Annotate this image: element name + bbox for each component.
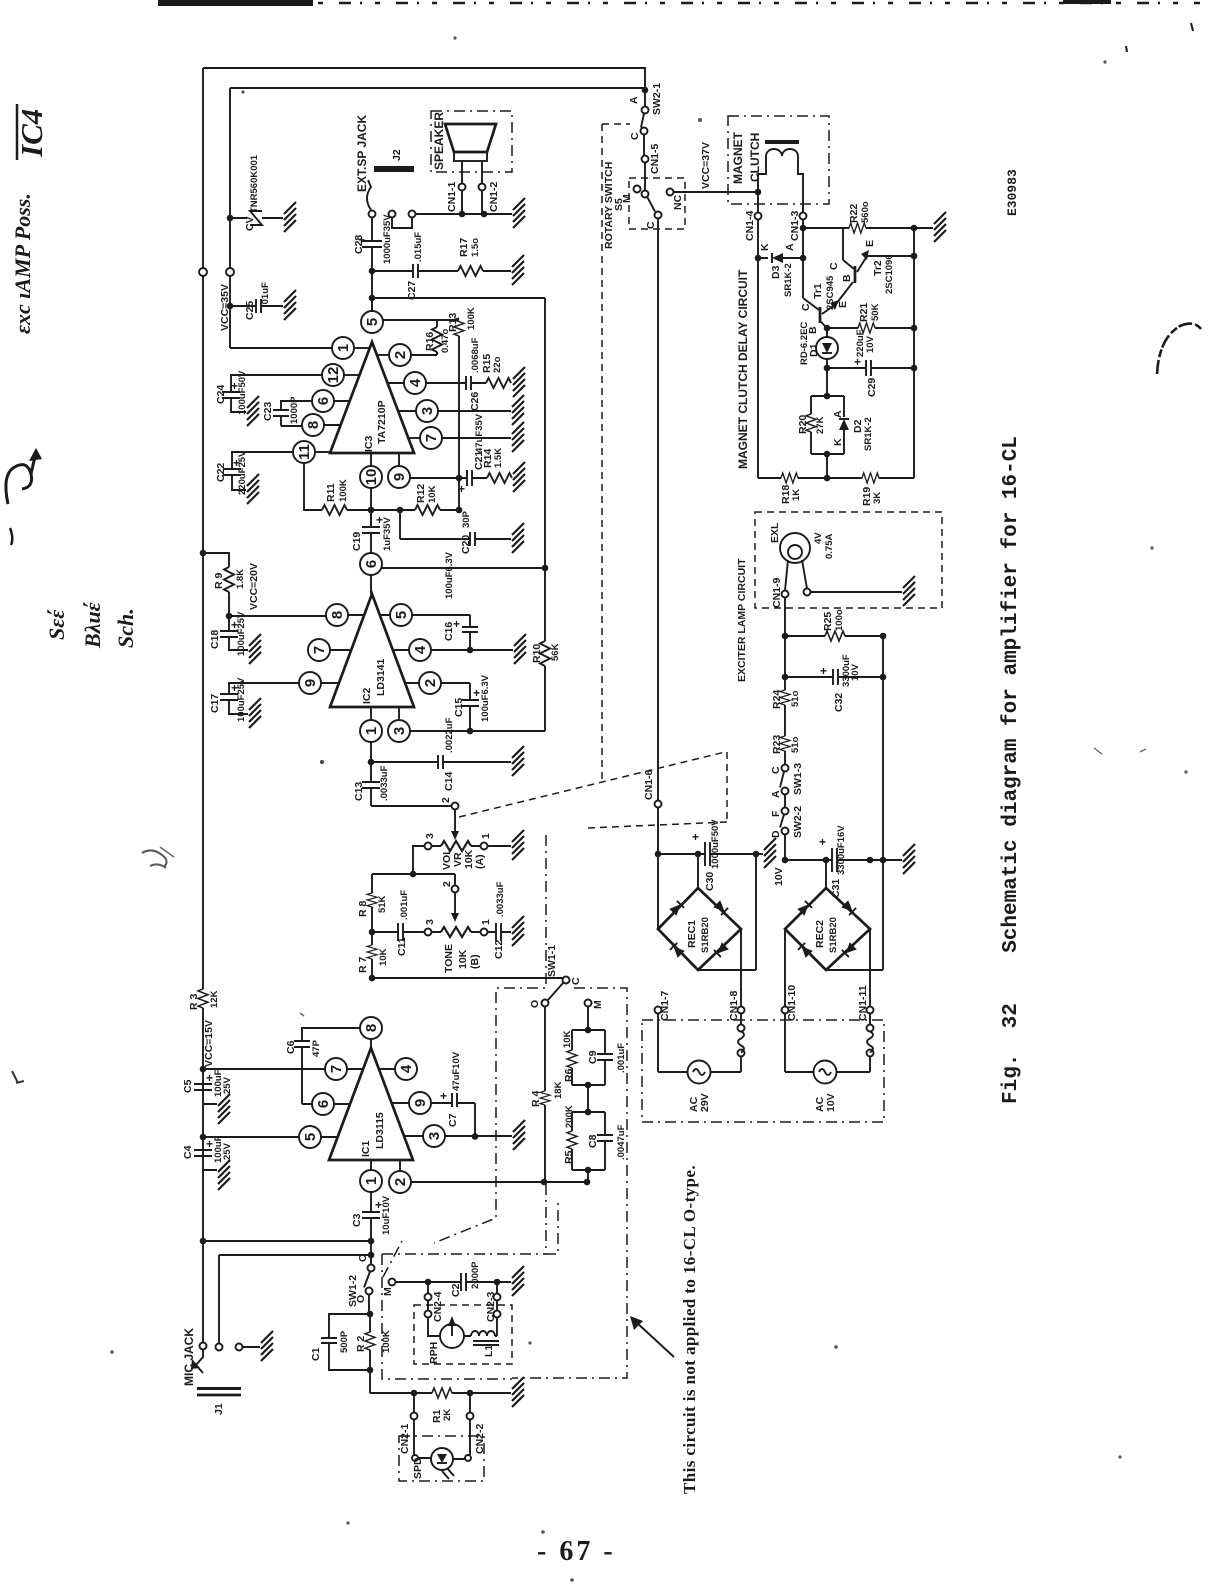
svg-text:R6: R6 [563, 1068, 575, 1082]
pin 11 [293, 441, 315, 463]
pin 1 [332, 337, 354, 359]
svg-text:EXCITER LAMP CIRCUIT: EXCITER LAMP CIRCUIT [736, 558, 748, 682]
connector CN2-1 [413, 1393, 415, 1441]
svg-text:C25: C25 [244, 301, 256, 320]
svg-text:REC2: REC2 [814, 920, 826, 948]
svg-text:R 2: R 2 [355, 1336, 367, 1353]
connector CN1-7 [655, 1007, 662, 1014]
potentiometer TONE 10K (B) [452, 886, 459, 893]
capacitor C17 100uF25V [220, 683, 300, 714]
svg-text:IC1: IC1 [360, 1141, 372, 1158]
capacitor C26 .0068uF [426, 376, 487, 390]
jack J2 [374, 166, 414, 172]
svg-text:8: 8 [305, 421, 322, 429]
svg-text:R12: R12 [415, 484, 427, 503]
svg-text:.01uF: .01uF [260, 282, 271, 307]
magnet clutch coil [765, 140, 799, 144]
connector CN2-4 [427, 1282, 429, 1311]
svg-text:E30983: E30983 [1005, 169, 1020, 216]
svg-text:R21: R21 [858, 303, 870, 322]
wire pin10 to node [370, 488, 372, 528]
svg-text:51K: 51K [377, 895, 388, 913]
svg-text:LD3115: LD3115 [374, 1112, 386, 1149]
svg-text:100uF6.3V: 100uF6.3V [480, 674, 491, 722]
svg-text:A: A [628, 96, 640, 104]
svg-text:C8: C8 [587, 1134, 599, 1148]
svg-text:R10: R10 [531, 644, 543, 663]
pin 2 [389, 1171, 411, 1193]
svg-text:100uF50V: 100uF50V [237, 370, 248, 415]
svg-text:C: C [828, 262, 840, 270]
svg-text:TONE: TONE [443, 944, 455, 973]
svg-text:CN1-7: CN1-7 [659, 990, 671, 1021]
svg-text:C1: C1 [310, 1347, 322, 1361]
svg-text:LD3141: LD3141 [375, 658, 387, 696]
svg-text:2: 2 [422, 679, 439, 687]
svg-text:7: 7 [423, 434, 440, 442]
svg-text:C4: C4 [182, 1145, 194, 1159]
capacitor C11 .001uF [372, 923, 425, 941]
wire pin3 to ground [438, 410, 512, 412]
svg-text:D3: D3 [770, 265, 782, 279]
speaker [445, 124, 496, 152]
svg-text:R5: R5 [563, 1150, 575, 1164]
resistor R12 10K [371, 509, 415, 511]
svg-text:10V: 10V [865, 335, 876, 353]
svg-text:CN1-5: CN1-5 [649, 143, 661, 174]
op-amp IC3 TA7210P [330, 342, 414, 453]
svg-text:CN1-2: CN1-2 [488, 181, 500, 212]
resistor R6 10K / capacitor C9 .001uF [587, 1007, 589, 1031]
connector CN1-10 [784, 929, 786, 1007]
svg-text:1.8K: 1.8K [235, 569, 246, 589]
resistor R20 27K / diode D2 SR1K-2 [826, 368, 828, 396]
svg-text:VCC=37V: VCC=37V [700, 142, 712, 189]
svg-text:R 9: R 9 [213, 573, 225, 590]
pin 10 [360, 466, 382, 488]
svg-text:4: 4 [407, 378, 424, 387]
svg-text:10K: 10K [378, 948, 389, 966]
rail right of C32 [882, 636, 884, 970]
svg-text:TNR560K001: TNR560K001 [249, 154, 260, 213]
dashed boundary inner [434, 835, 546, 1243]
svg-text:+: + [820, 664, 827, 678]
note arrow [636, 1322, 674, 1357]
svg-text:47uF10V: 47uF10V [451, 1051, 462, 1091]
svg-text:6: 6 [363, 560, 380, 568]
wire NC to clutch [674, 191, 759, 193]
svg-text:D: D [770, 830, 782, 838]
node A rail junction circles [199, 268, 207, 276]
varistor CV TNR560K001 [227, 215, 234, 222]
dashed boundary outer [512, 988, 627, 1378]
svg-text:EXL: EXL [769, 522, 781, 543]
svg-text:C28: C28 [353, 235, 365, 254]
svg-text:500P: 500P [339, 1330, 350, 1353]
svg-text:C19: C19 [351, 532, 363, 551]
rectifier REC1 S1RB20 [695, 851, 702, 858]
wire: left outer VCC rail [202, 68, 204, 1346]
pin 4 [409, 639, 431, 661]
svg-text:C6: C6 [285, 1040, 297, 1054]
connector CN1-1 [459, 184, 466, 191]
capacitor C24 100uF50V [222, 375, 323, 412]
wire jack loop [392, 218, 412, 229]
svg-text:J2: J2 [391, 149, 403, 161]
svg-text:CN1-1: CN1-1 [446, 181, 458, 212]
capacitor C30 1000uF50V [655, 851, 662, 858]
capacitor C20 30P [400, 510, 511, 546]
pin 3 [423, 1125, 445, 1147]
svg-text:+: + [206, 1071, 213, 1085]
svg-text:CV: CV [244, 216, 256, 231]
resistor R2 100K [369, 1314, 371, 1393]
svg-text:R11: R11 [325, 483, 337, 502]
wire VCC branch to R9 [200, 550, 207, 557]
svg-text:NC: NC [672, 194, 684, 210]
connector CN1-5 [643, 135, 645, 156]
svg-text:1.5o: 1.5o [470, 238, 481, 257]
svg-text:+: + [473, 686, 480, 700]
pin 2 [389, 344, 411, 366]
svg-text:C9: C9 [587, 1050, 599, 1064]
svg-text:VCC=15V: VCC=15V [203, 1020, 215, 1067]
svg-text:2K: 2K [442, 1409, 453, 1421]
svg-text:IC3: IC3 [363, 436, 375, 453]
svg-text:R 8: R 8 [357, 901, 369, 918]
pin 5 [390, 604, 412, 626]
svg-text:SW2-1: SW2-1 [651, 83, 663, 115]
svg-text:C18: C18 [209, 630, 221, 649]
wire VCC feed to IC2 rail [372, 297, 545, 299]
wire jack to ground [416, 213, 513, 215]
svg-text:F: F [770, 810, 782, 817]
svg-text:0.75A: 0.75A [824, 534, 835, 559]
op-amp IC1 LD3115 [329, 1048, 413, 1160]
svg-text:J1: J1 [213, 1403, 225, 1415]
svg-text:25V: 25V [222, 1142, 233, 1160]
svg-text:2: 2 [392, 351, 409, 359]
svg-text:7: 7 [328, 1065, 345, 1073]
handwritten arrow [6, 465, 32, 504]
svg-text:VCC=20V: VCC=20V [248, 563, 260, 610]
capacitor C14 .0022uF [371, 755, 511, 769]
switch SW2-1 [642, 87, 649, 94]
capacitor C23 1000P [273, 401, 313, 426]
svg-text:C: C [357, 1254, 369, 1262]
svg-text:47uF35V: 47uF35V [474, 413, 485, 453]
svg-text:56K: 56K [550, 643, 561, 661]
diode D3 SR1K-2 [755, 255, 762, 262]
dashed pointer to CN1-6 [459, 752, 727, 828]
op-amp IC2 LD3141 [330, 594, 414, 707]
svg-text:2SC945: 2SC945 [825, 275, 836, 310]
magnet clutch box [728, 116, 829, 204]
pin 5 [371, 298, 373, 312]
svg-text:51o: 51o [790, 736, 801, 753]
svg-text:+: + [458, 482, 465, 496]
svg-text:S1RB20: S1RB20 [828, 917, 839, 953]
svg-text:C12: C12 [493, 940, 505, 959]
svg-text:22o: 22o [492, 356, 503, 373]
svg-text:εxc ıAMP Poss.: εxc ıAMP Poss. [10, 193, 35, 334]
svg-text:- 67 -: - 67 - [537, 1536, 616, 1567]
svg-text:220uF25V: 220uF25V [237, 450, 248, 495]
svg-text:C26: C26 [469, 392, 481, 411]
svg-text:3: 3 [426, 1132, 443, 1140]
svg-text:8: 8 [329, 611, 346, 619]
svg-text:CN2-4: CN2-4 [432, 1291, 444, 1322]
svg-text:C13: C13 [353, 782, 365, 801]
AC source 29V [688, 1061, 711, 1084]
capacitor C21 47uF35V [410, 470, 488, 486]
wire: inner top rail [230, 88, 645, 348]
svg-text:1000uF35V: 1000uF35V [382, 214, 393, 264]
svg-text:MAGNET: MAGNET [731, 131, 745, 184]
coil winding [738, 1025, 745, 1032]
wire pin7 to ground [442, 437, 512, 439]
svg-text:C: C [629, 132, 641, 140]
svg-text:1: 1 [363, 1177, 380, 1185]
capacitor C4 100uF25V [194, 1150, 217, 1170]
svg-text:1.5K: 1.5K [493, 448, 504, 468]
resistor R17 1.5o [458, 266, 483, 276]
pin 9 [299, 672, 321, 694]
svg-text:R 3: R 3 [188, 994, 200, 1011]
pin 7 [308, 639, 330, 661]
svg-text:CN2-1: CN2-1 [399, 1423, 411, 1454]
svg-text:CN1-9: CN1-9 [771, 577, 783, 608]
svg-text:Tr1: Tr1 [812, 283, 824, 299]
svg-text:C20: C20 [460, 535, 472, 554]
svg-text:100K: 100K [381, 1330, 392, 1353]
svg-text:R23: R23 [771, 735, 783, 754]
resistor R14 1.5K [487, 473, 512, 483]
svg-text:Sεέ: Sεέ [44, 609, 69, 640]
capacitor C27 .015uF [372, 264, 458, 278]
svg-text:10V: 10V [825, 1093, 837, 1112]
svg-text:5: 5 [364, 318, 381, 326]
connector CN1-2 [479, 184, 486, 191]
pin 5 [299, 1126, 321, 1148]
svg-text:(A): (A) [474, 854, 486, 869]
coil L1 [464, 1318, 497, 1337]
svg-text:C17: C17 [209, 694, 221, 713]
svg-text:CN1-4: CN1-4 [744, 210, 756, 241]
svg-text:SW1-3: SW1-3 [792, 763, 804, 795]
wire pin1 down [370, 742, 372, 763]
svg-text:2: 2 [392, 1178, 409, 1186]
svg-text:7: 7 [311, 646, 328, 654]
svg-text:560o: 560o [860, 201, 871, 223]
svg-text:(B): (B) [469, 954, 481, 969]
svg-text:O: O [529, 1000, 541, 1008]
wire pin5 left [200, 1134, 207, 1141]
svg-text:M: M [592, 1000, 604, 1009]
svg-text:SW2-2: SW2-2 [792, 806, 804, 838]
resistor R22 560o [800, 225, 807, 232]
svg-text:3: 3 [391, 727, 408, 735]
svg-text:B: B [841, 274, 853, 282]
svg-text:R20: R20 [797, 415, 809, 434]
svg-text:4: 4 [398, 1064, 415, 1073]
svg-text:MAGNET CLUTCH DELAY CIRCUIT: MAGNET CLUTCH DELAY CIRCUIT [736, 269, 750, 469]
pin 1 [360, 1170, 382, 1192]
svg-text:5: 5 [393, 611, 410, 619]
pin 3 [388, 720, 410, 742]
svg-text:TA7210P: TA7210P [376, 400, 388, 444]
svg-text:EXT.SP JACK: EXT.SP JACK [355, 115, 369, 192]
svg-text:18K: 18K [553, 1081, 564, 1099]
svg-text:1: 1 [335, 344, 352, 352]
svg-text:9: 9 [302, 679, 319, 687]
svg-text:100uF6.3V: 100uF6.3V [444, 551, 455, 599]
svg-text:R 4: R 4 [530, 1091, 542, 1108]
svg-text:RPH: RPH [428, 1342, 440, 1364]
svg-text:CN2-3: CN2-3 [485, 1291, 497, 1322]
connector CN1-3 [800, 213, 807, 220]
capacitor C7 47uF10V [431, 1093, 476, 1137]
svg-text:C14: C14 [443, 772, 455, 791]
resistor R15 22o [486, 378, 511, 388]
svg-text:C2: C2 [450, 1283, 462, 1297]
svg-text:R17: R17 [458, 238, 470, 257]
transistor Tr1 2SC945 [803, 258, 819, 310]
wire pin5 right [383, 319, 460, 321]
connector CN1-9 [782, 591, 789, 598]
svg-text:2: 2 [440, 797, 452, 803]
capacitor C16 100uF6.3V [462, 615, 478, 650]
svg-text:2SC1096: 2SC1096 [884, 254, 895, 294]
pin 8 [302, 414, 324, 436]
svg-text:1000uF50V: 1000uF50V [710, 819, 721, 869]
svg-text:10V: 10V [773, 867, 785, 886]
svg-text:.015uF: .015uF [413, 232, 424, 262]
svg-text:A: A [784, 243, 796, 251]
svg-text:SW1-1: SW1-1 [546, 945, 558, 977]
svg-text:.0033uF: .0033uF [379, 765, 390, 801]
coil winding [867, 1025, 874, 1032]
svg-text:C15: C15 [453, 698, 465, 717]
svg-text:R24: R24 [771, 690, 783, 709]
wire VCC to pin7 [200, 1066, 207, 1073]
svg-text:.0033uF: .0033uF [495, 881, 506, 917]
svg-text:C30: C30 [704, 872, 716, 891]
svg-text:3: 3 [424, 919, 436, 925]
svg-text:3: 3 [424, 833, 436, 839]
svg-text:S1RB20: S1RB20 [700, 917, 711, 953]
switch SW1-2 [370, 1241, 372, 1265]
svg-text:+: + [440, 1089, 447, 1103]
svg-text:2: 2 [441, 881, 453, 887]
pin 9 [388, 466, 410, 488]
svg-text:47P: 47P [311, 1039, 322, 1057]
feedback rail [458, 336, 460, 510]
svg-text:SR1K-2: SR1K-2 [783, 263, 794, 297]
capacitor C32 3300uF10V [782, 674, 789, 681]
svg-text:A: A [770, 790, 782, 798]
svg-text:R16: R16 [424, 332, 436, 351]
svg-text:0.47o: 0.47o [440, 329, 451, 353]
resistor R13 100K [454, 318, 464, 336]
svg-text:9: 9 [412, 1099, 429, 1107]
svg-text:SR1K-2: SR1K-2 [863, 417, 874, 451]
connector CN2-2 [469, 1393, 471, 1441]
resistor R4 18K [544, 1007, 546, 1183]
pin 1 [360, 720, 382, 742]
pin 4 [404, 372, 426, 394]
svg-text:10V: 10V [850, 663, 861, 681]
svg-text:.0047uF: .0047uF [616, 1124, 627, 1160]
transistor Tr2 2SC1096 [843, 228, 854, 269]
resistor R8 51K [371, 874, 373, 932]
svg-text:C32: C32 [833, 693, 845, 712]
svg-text:This circuit is not applied to: This circuit is not applied to 16-CL O-t… [680, 1165, 699, 1494]
svg-text:.0068uF: .0068uF [470, 337, 481, 373]
svg-text:C3: C3 [351, 1213, 363, 1227]
wire mic inner rail [219, 1255, 371, 1344]
svg-text:C: C [570, 977, 582, 985]
capacitor C25 .01uF [227, 303, 234, 310]
svg-text:4: 4 [412, 645, 429, 654]
wire pin11 down [304, 463, 322, 511]
svg-text:.0022uF: .0022uF [444, 717, 455, 753]
svg-text:1: 1 [480, 833, 492, 839]
svg-text:10uF10V: 10uF10V [381, 1195, 392, 1235]
svg-text:C23: C23 [262, 402, 274, 421]
svg-text:+: + [206, 1137, 213, 1151]
switch SW1-1 [372, 977, 563, 979]
rotary switch S5 [629, 178, 685, 229]
right rail [913, 228, 915, 478]
svg-text:ROTARY SWITCH: ROTARY SWITCH [603, 162, 615, 249]
svg-text:10: 10 [363, 469, 380, 486]
capacitor C28 1000uF35V [362, 218, 382, 311]
svg-text:C: C [800, 303, 812, 311]
resistor R7 10K [371, 932, 373, 978]
wire S5 to rectifier [657, 219, 659, 801]
svg-text:REC1: REC1 [686, 920, 698, 948]
svg-text:C16: C16 [443, 622, 455, 641]
capacitor C29 220uF10V [824, 365, 831, 372]
svg-text:RD-6.2EC: RD-6.2EC [799, 322, 810, 365]
svg-text:A: A [832, 410, 844, 418]
svg-text:C: C [645, 221, 657, 229]
resistor R5 200K / capacitor C8 .0047uF [587, 1085, 589, 1112]
svg-text:R22: R22 [848, 204, 860, 223]
svg-text:1K: 1K [791, 489, 802, 501]
AC source 10V [814, 1061, 837, 1084]
svg-text:1: 1 [363, 727, 380, 735]
svg-text:MIC JACK: MIC JACK [182, 1328, 196, 1386]
pin 7 [420, 427, 442, 449]
resistor R16 0.47o [436, 320, 438, 355]
svg-text:12K: 12K [209, 990, 220, 1008]
pin 8 [360, 1017, 382, 1039]
record-play head RPH [440, 1324, 464, 1348]
svg-text:5: 5 [302, 1133, 319, 1141]
svg-text:3: 3 [419, 407, 436, 415]
speaker box [431, 111, 512, 172]
connector CN1-11 [869, 929, 871, 1007]
contact M [389, 1279, 396, 1286]
svg-text:29V: 29V [699, 1093, 711, 1112]
svg-text:C11: C11 [396, 937, 408, 956]
svg-text:+: + [692, 830, 699, 844]
svg-text:C22: C22 [215, 463, 227, 482]
svg-text:100o: 100o [834, 609, 845, 631]
capacitor C3 10uF10V [362, 1192, 380, 1242]
